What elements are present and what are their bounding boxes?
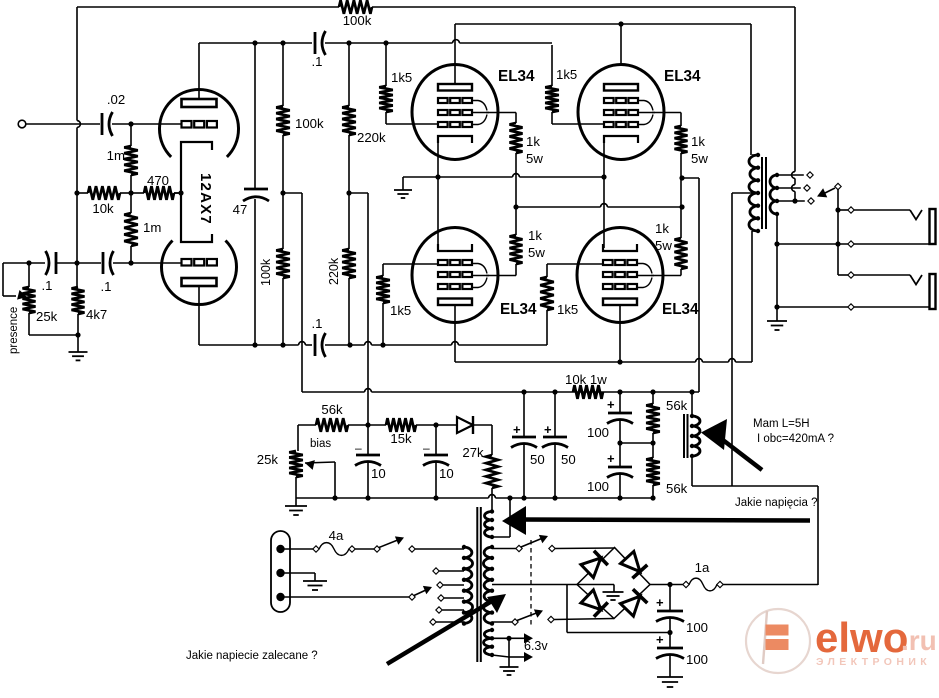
svg-text:50: 50 <box>530 452 545 467</box>
svg-text:5w: 5w <box>691 151 708 166</box>
svg-text:EL34: EL34 <box>664 68 701 85</box>
svg-text:EL34: EL34 <box>500 301 537 318</box>
svg-text:47: 47 <box>233 202 248 217</box>
svg-text:25k: 25k <box>257 452 279 467</box>
svg-text:1k: 1k <box>655 221 669 236</box>
svg-text:–: – <box>423 441 430 455</box>
svg-text:ЭЛЕКТРОНИК: ЭЛЕКТРОНИК <box>816 656 931 668</box>
svg-text:100: 100 <box>587 479 609 494</box>
svg-text:5w: 5w <box>526 151 543 166</box>
svg-text:+: + <box>513 422 521 437</box>
svg-text:5w: 5w <box>655 238 672 253</box>
svg-text:1k5: 1k5 <box>556 67 577 82</box>
svg-text:1k5: 1k5 <box>391 70 412 85</box>
svg-text:56k: 56k <box>666 398 688 413</box>
svg-text:5w: 5w <box>528 245 545 260</box>
svg-text:elwo: elwo <box>815 614 908 661</box>
svg-text:10: 10 <box>371 466 386 481</box>
svg-text:presence: presence <box>8 307 20 354</box>
svg-text:.1: .1 <box>101 279 112 294</box>
svg-text:–: – <box>355 441 362 455</box>
svg-text:50: 50 <box>561 452 576 467</box>
svg-text:+: + <box>656 595 664 610</box>
svg-text:4a: 4a <box>329 528 344 543</box>
svg-text:1k5: 1k5 <box>390 303 411 318</box>
svg-text:+: + <box>607 397 615 412</box>
svg-text:1m: 1m <box>107 148 125 163</box>
svg-text:6.3v: 6.3v <box>524 639 548 653</box>
svg-text:27k: 27k <box>462 445 484 460</box>
svg-text:470: 470 <box>147 173 169 188</box>
svg-text:+: + <box>607 451 615 466</box>
svg-text:100: 100 <box>587 425 609 440</box>
svg-text:EL34: EL34 <box>662 301 699 318</box>
svg-text:100k: 100k <box>295 116 324 131</box>
svg-text:25k: 25k <box>36 309 58 324</box>
svg-text:1k: 1k <box>526 134 540 149</box>
svg-text:15k: 15k <box>390 431 412 446</box>
svg-text:+: + <box>656 632 664 647</box>
svg-text:.1: .1 <box>312 54 323 69</box>
svg-text:56k: 56k <box>321 402 343 417</box>
svg-text:56k: 56k <box>666 481 688 496</box>
svg-text:1a: 1a <box>695 560 710 575</box>
svg-text:+: + <box>544 422 552 437</box>
svg-text:10k 1w: 10k 1w <box>565 372 607 387</box>
svg-text:I obc=420mA ?: I obc=420mA ? <box>757 433 834 445</box>
svg-text:Jakie napięcia ?: Jakie napięcia ? <box>735 497 817 509</box>
svg-text:220k: 220k <box>357 130 386 145</box>
svg-text:1k5: 1k5 <box>557 302 578 317</box>
svg-text:4k7: 4k7 <box>86 307 107 322</box>
svg-text:1k: 1k <box>528 228 542 243</box>
svg-text:10k: 10k <box>92 201 114 216</box>
svg-text:220k: 220k <box>327 257 341 285</box>
svg-text:100: 100 <box>686 652 708 667</box>
svg-text:.02: .02 <box>107 92 125 107</box>
svg-text:12AX7: 12AX7 <box>197 173 214 225</box>
svg-text:1m: 1m <box>143 220 161 235</box>
svg-text:bias: bias <box>310 438 331 450</box>
svg-text:Jakie napiecie zalecane ?: Jakie napiecie zalecane ? <box>186 650 318 662</box>
svg-text:100k: 100k <box>343 13 372 28</box>
svg-text:100k: 100k <box>259 258 273 286</box>
svg-text:EL34: EL34 <box>498 68 535 85</box>
svg-text:.ru: .ru <box>901 625 937 656</box>
svg-text:10: 10 <box>439 466 454 481</box>
svg-text:.1: .1 <box>312 316 323 331</box>
svg-text:1k: 1k <box>691 134 705 149</box>
svg-text:Mam L=5H: Mam L=5H <box>753 418 810 430</box>
svg-text:.1: .1 <box>42 278 53 293</box>
svg-text:100: 100 <box>686 620 708 635</box>
